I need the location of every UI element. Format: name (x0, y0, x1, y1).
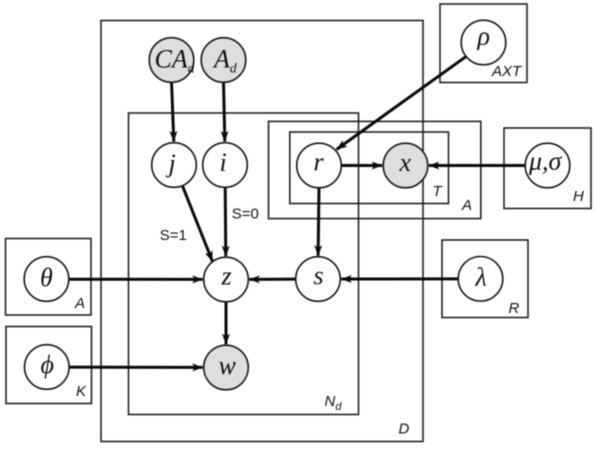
plate H (504, 128, 591, 209)
wire mu,sigma -> x (429, 164, 525, 167)
wire z -> w (225, 302, 228, 344)
svg-text:x: x (399, 148, 412, 177)
wire lambda -> s (341, 277, 458, 280)
node theta (24, 257, 69, 302)
wire i -> z (S=0) (224, 187, 228, 256)
svg-text:S=1: S=1 (160, 227, 187, 244)
svg-text:θ: θ (40, 263, 53, 292)
svg-text:ρ: ρ (477, 22, 490, 51)
wire s -> z (249, 278, 295, 281)
node rho (461, 20, 506, 65)
node lambda (458, 257, 503, 302)
svg-text:z: z (221, 262, 232, 291)
node mu,sigma (525, 143, 570, 188)
plate D (101, 21, 423, 442)
node w (204, 345, 249, 390)
plate K (6, 327, 92, 404)
plate R (442, 240, 528, 318)
wire A_d -> i (224, 81, 225, 142)
plate A (around T) (269, 121, 481, 218)
svg-text:ϕ: ϕ (41, 350, 54, 379)
node s (296, 257, 341, 302)
svg-text:A: A (74, 295, 85, 312)
node r (297, 143, 342, 188)
svg-text:D: D (399, 421, 410, 438)
svg-text:r: r (314, 148, 325, 177)
svg-text:s: s (314, 261, 324, 290)
wire rho -> r (337, 56, 467, 149)
node CA_d (149, 38, 194, 83)
plate T (290, 132, 449, 204)
wire theta -> z (69, 278, 203, 281)
node x (383, 143, 428, 188)
svg-text:H: H (573, 188, 584, 205)
svg-text:K: K (76, 383, 87, 400)
wire phi -> w (69, 366, 203, 369)
wire r -> x (341, 164, 382, 167)
svg-text:μ,σ: μ,σ (528, 147, 563, 176)
node i (203, 143, 248, 188)
svg-text:w: w (219, 351, 237, 380)
node z (204, 257, 249, 302)
svg-text:A: A (461, 197, 472, 214)
svg-text:R: R (509, 300, 520, 317)
node A_d (201, 38, 246, 83)
node phi (25, 345, 70, 390)
wire CA_d -> j (172, 81, 174, 142)
plate AXT (440, 4, 527, 83)
plate A (theta) (6, 239, 92, 316)
svg-text:S=0: S=0 (232, 205, 259, 222)
plate N_d (129, 113, 359, 415)
node j (152, 143, 197, 188)
wire j -> z (S=1) (183, 186, 213, 262)
svg-text:λ: λ (475, 263, 487, 292)
wire r -> s (317, 188, 321, 256)
svg-text:AXT: AXT (491, 63, 523, 80)
svg-text:i: i (220, 148, 227, 177)
